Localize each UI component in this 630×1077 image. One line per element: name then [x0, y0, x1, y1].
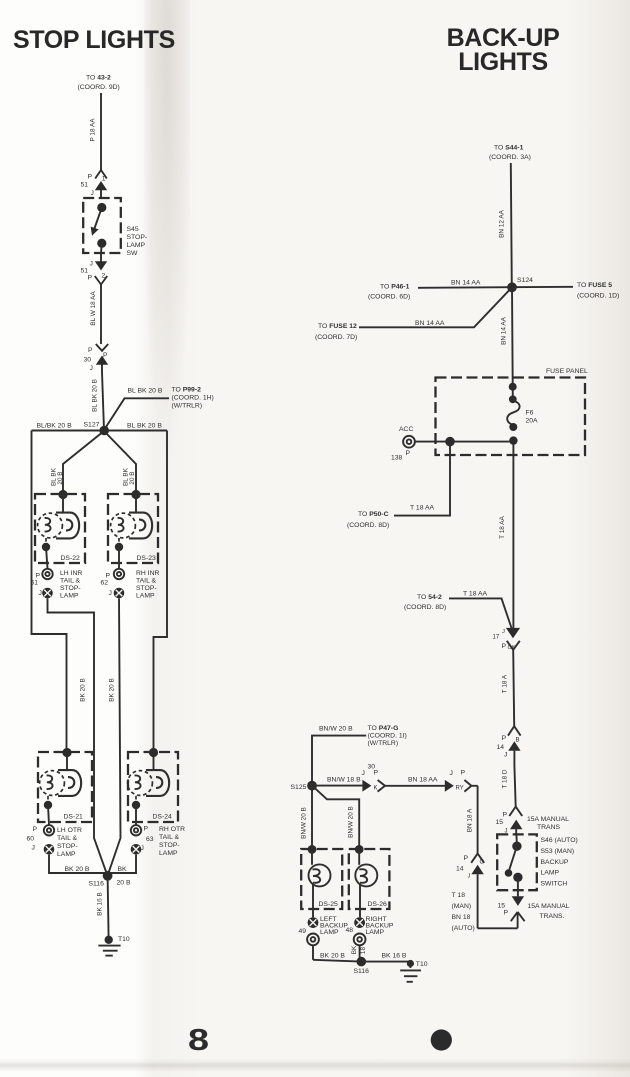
svg-text:S116: S116 — [89, 881, 105, 888]
svg-text:T 18 A: T 18 A — [502, 674, 509, 693]
svg-text:(COORD. 9D): (COORD. 9D) — [78, 84, 120, 91]
svg-text:J: J — [90, 261, 93, 268]
svg-text:T 18 AA: T 18 AA — [463, 591, 488, 598]
svg-text:LAMP: LAMP — [541, 870, 560, 877]
svg-text:BK: BK — [351, 945, 358, 954]
svg-text:STOP-: STOP- — [57, 843, 78, 850]
svg-text:P: P — [88, 275, 93, 282]
svg-text:BN/W 18 B: BN/W 18 B — [327, 777, 361, 784]
svg-text:(COORD. 1I): (COORD. 1I) — [368, 733, 407, 740]
svg-text:J: J — [90, 365, 93, 372]
svg-text:BK 16 B: BK 16 B — [382, 953, 407, 960]
svg-text:20 B: 20 B — [57, 471, 64, 484]
svg-text:BL BK 20 B: BL BK 20 B — [127, 423, 162, 430]
svg-text:TO P50-C: TO P50-C — [358, 511, 389, 518]
svg-text:8: 8 — [188, 1023, 209, 1057]
svg-text:J: J — [505, 829, 508, 835]
svg-text:P: P — [503, 812, 508, 819]
svg-text:TO FUSE 12: TO FUSE 12 — [318, 323, 357, 330]
svg-text:2: 2 — [102, 273, 106, 280]
svg-text:J: J — [450, 770, 453, 777]
svg-text:P: P — [88, 174, 93, 181]
svg-text:14: 14 — [456, 866, 464, 873]
svg-text:DS-25: DS-25 — [319, 901, 338, 908]
svg-text:S125: S125 — [291, 784, 307, 791]
svg-text:J: J — [39, 590, 42, 597]
svg-text:BK 20 B: BK 20 B — [109, 678, 116, 701]
svg-text:J: J — [109, 590, 112, 597]
svg-text:STOP LIGHTS: STOP LIGHTS — [13, 26, 175, 54]
svg-text:DS-21: DS-21 — [64, 814, 83, 821]
svg-text:TAIL &: TAIL & — [136, 578, 156, 585]
svg-text:15: 15 — [496, 819, 504, 826]
svg-text:STOP-: STOP- — [127, 234, 148, 241]
svg-text:RH OTR: RH OTR — [159, 826, 185, 833]
svg-text:TRANS.: TRANS. — [540, 913, 565, 920]
svg-text:61: 61 — [31, 580, 39, 587]
svg-text:15A MANUAL: 15A MANUAL — [528, 903, 570, 910]
svg-text:LIGHTS: LIGHTS — [458, 48, 548, 76]
svg-text:K: K — [374, 786, 378, 792]
svg-text:20 B: 20 B — [129, 471, 136, 484]
svg-text:S124: S124 — [517, 277, 533, 284]
svg-text:BACKUP: BACKUP — [541, 859, 569, 866]
svg-text:TRANS: TRANS — [537, 824, 561, 831]
svg-text:BN 18 AA: BN 18 AA — [408, 777, 438, 784]
svg-text:T 18 AA: T 18 AA — [499, 515, 506, 538]
svg-text:J: J — [502, 629, 505, 635]
svg-text:J: J — [32, 845, 35, 852]
svg-text:J: J — [91, 190, 94, 197]
svg-text:BL BK 20 B: BL BK 20 B — [128, 388, 163, 395]
svg-text:P: P — [406, 450, 411, 457]
svg-text:20A: 20A — [526, 418, 539, 425]
svg-text:49: 49 — [299, 928, 307, 935]
svg-text:STOP-: STOP- — [159, 842, 180, 849]
svg-text:P 18 AA: P 18 AA — [90, 118, 97, 142]
svg-text:S116: S116 — [354, 968, 370, 975]
svg-text:P: P — [106, 573, 111, 580]
svg-text:LAMP: LAMP — [60, 593, 79, 600]
svg-text:BN 18 A: BN 18 A — [467, 808, 474, 832]
svg-text:SW: SW — [127, 250, 139, 257]
svg-text:TO 54-2: TO 54-2 — [417, 594, 442, 601]
svg-text:BK 20 B: BK 20 B — [65, 866, 90, 873]
svg-text:TO FUSE 5: TO FUSE 5 — [577, 282, 612, 289]
svg-text:P: P — [374, 770, 379, 777]
svg-text:P: P — [502, 643, 507, 650]
svg-text:C: C — [480, 860, 485, 866]
svg-text:20 B: 20 B — [117, 880, 131, 887]
svg-text:BN 14 AA: BN 14 AA — [415, 320, 445, 327]
svg-text:ACC: ACC — [399, 426, 413, 433]
svg-text:S46 (AUTO): S46 (AUTO) — [541, 837, 578, 844]
svg-text:J: J — [468, 874, 471, 880]
svg-text:60: 60 — [27, 836, 35, 843]
svg-text:BK: BK — [118, 866, 128, 873]
svg-text:LH INR: LH INR — [60, 570, 82, 577]
svg-text:LAMP: LAMP — [136, 593, 155, 600]
svg-text:(W/TRLR): (W/TRLR) — [172, 403, 203, 410]
svg-text:TO P99-2: TO P99-2 — [172, 387, 202, 394]
svg-text:P: P — [103, 352, 108, 359]
svg-text:15A MANUAL: 15A MANUAL — [527, 816, 569, 823]
svg-text:18: 18 — [360, 947, 367, 955]
svg-text:BN 18: BN 18 — [452, 914, 471, 921]
svg-text:BK 16 B: BK 16 B — [97, 892, 104, 915]
svg-text:(COORD. 8D): (COORD. 8D) — [404, 604, 446, 611]
svg-text:T10: T10 — [118, 936, 130, 943]
svg-text:P: P — [88, 347, 93, 354]
svg-text:14: 14 — [497, 744, 505, 751]
svg-text:138: 138 — [391, 455, 403, 462]
svg-text:STOP-: STOP- — [136, 585, 157, 592]
svg-text:LH OTR: LH OTR — [57, 827, 82, 834]
svg-text:63: 63 — [146, 836, 154, 843]
svg-text:1: 1 — [102, 176, 106, 183]
svg-text:P: P — [464, 855, 469, 862]
svg-text:T 18 D: T 18 D — [502, 769, 509, 788]
svg-text:J: J — [504, 752, 507, 759]
svg-text:LAMP: LAMP — [320, 929, 339, 936]
svg-text:LAMP: LAMP — [57, 851, 76, 858]
svg-text:(COORD. 7D): (COORD. 7D) — [315, 334, 357, 341]
svg-text:J: J — [362, 770, 365, 777]
svg-text:(COORD. 1H): (COORD. 1H) — [172, 395, 214, 402]
svg-text:51: 51 — [81, 182, 89, 189]
svg-text:RH INR: RH INR — [136, 570, 160, 577]
svg-text:TAIL &: TAIL & — [57, 835, 77, 842]
svg-text:P: P — [33, 826, 38, 833]
svg-text:51: 51 — [81, 268, 89, 275]
svg-text:P: P — [502, 735, 507, 742]
svg-text:BN 14 AA: BN 14 AA — [501, 316, 508, 344]
svg-text:TO P47-G: TO P47-G — [368, 725, 399, 732]
svg-text:S53 (MAN): S53 (MAN) — [541, 848, 575, 855]
svg-text:DS-26: DS-26 — [368, 901, 387, 908]
svg-text:62: 62 — [101, 580, 109, 587]
svg-text:FUSE PANEL: FUSE PANEL — [546, 368, 588, 375]
svg-text:DS-24: DS-24 — [153, 814, 172, 821]
svg-text:(W/TRLR): (W/TRLR) — [368, 740, 399, 747]
svg-text:TO P46-1: TO P46-1 — [380, 284, 410, 291]
svg-text:30: 30 — [84, 357, 92, 364]
svg-text:S127: S127 — [84, 422, 100, 429]
svg-text:BN/W 20 B: BN/W 20 B — [301, 807, 308, 839]
svg-text:15: 15 — [498, 903, 506, 910]
svg-text:LAMP: LAMP — [127, 242, 146, 249]
svg-text:S45: S45 — [127, 226, 139, 233]
svg-text:TO S44-1: TO S44-1 — [494, 145, 524, 152]
svg-text:BL BK 20 B: BL BK 20 B — [92, 379, 99, 412]
svg-text:SWITCH: SWITCH — [541, 881, 568, 888]
svg-text:P: P — [36, 573, 41, 580]
svg-text:P: P — [461, 770, 466, 777]
svg-text:(COORD. 6D): (COORD. 6D) — [368, 294, 410, 301]
svg-text:17: 17 — [493, 635, 500, 641]
svg-text:(AUTO): (AUTO) — [452, 925, 475, 932]
svg-text:TAIL &: TAIL & — [159, 834, 179, 841]
svg-text:P: P — [144, 826, 149, 833]
svg-text:BK 20 B: BK 20 B — [320, 953, 345, 960]
svg-text:(COORD. 1D): (COORD. 1D) — [577, 293, 619, 300]
svg-text:DS-22: DS-22 — [61, 555, 80, 562]
svg-text:STOP-: STOP- — [60, 585, 81, 592]
svg-text:BN 12 AA: BN 12 AA — [499, 209, 506, 237]
svg-text:P: P — [504, 910, 509, 917]
svg-text:BN/W 20 B: BN/W 20 B — [348, 806, 355, 838]
svg-text:B: B — [516, 738, 520, 744]
svg-text:DS-23: DS-23 — [137, 555, 156, 562]
svg-text:CK: CK — [508, 645, 516, 651]
svg-text:BN 14 AA: BN 14 AA — [451, 280, 481, 287]
svg-text:BL/BK 20 B: BL/BK 20 B — [37, 423, 73, 430]
svg-text:TAIL &: TAIL & — [60, 578, 80, 585]
svg-text:T10: T10 — [416, 961, 428, 968]
svg-text:J: J — [141, 845, 144, 852]
svg-text:TO 43-2: TO 43-2 — [86, 75, 111, 82]
svg-text:(COORD. 3A): (COORD. 3A) — [489, 154, 531, 161]
svg-text:BK 20 B: BK 20 B — [80, 678, 87, 701]
svg-text:T 18: T 18 — [452, 892, 466, 899]
svg-text:BN/W 20 B: BN/W 20 B — [319, 726, 353, 733]
svg-text:LAMP: LAMP — [159, 850, 178, 857]
svg-text:(MAN): (MAN) — [452, 903, 472, 910]
svg-text:RY: RY — [456, 786, 464, 792]
svg-text:(COORD. 8D): (COORD. 8D) — [347, 522, 389, 529]
svg-text:LAMP: LAMP — [366, 929, 385, 936]
svg-text:T 18 AA: T 18 AA — [410, 505, 435, 512]
svg-text:BL W 18 AA: BL W 18 AA — [90, 291, 97, 326]
svg-text:F6: F6 — [526, 410, 534, 417]
